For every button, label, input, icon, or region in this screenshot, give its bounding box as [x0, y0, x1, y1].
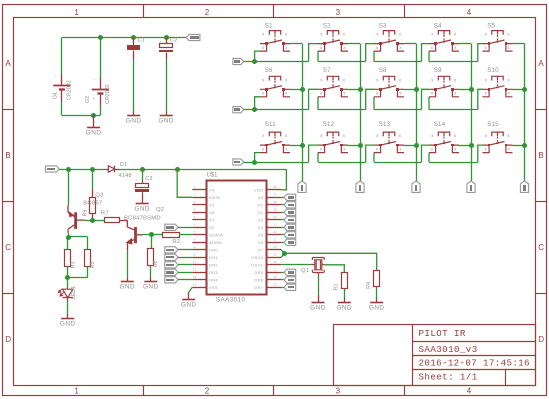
wire top supply: [62, 37, 186, 39]
ground Q2: [127, 278, 129, 282]
switch S7: [318, 76, 348, 97]
switch S8: [374, 76, 404, 97]
svg-text:R5: R5: [90, 262, 96, 269]
wire S7 to column: [348, 89, 360, 91]
wire S15 to column: [513, 145, 525, 147]
svg-text:6: 6: [194, 223, 196, 227]
ground R6: [144, 281, 157, 283]
pin 5 U1 left: [192, 219, 206, 221]
svg-text:DR0: DR0: [209, 248, 218, 253]
wire row 2 link 4: [478, 89, 483, 109]
pin 10 U1 left: [192, 257, 206, 259]
svg-text:15: 15: [273, 283, 277, 287]
pin 24 U1 right: [266, 219, 281, 221]
svg-text:U$1: U$1: [207, 173, 219, 179]
wire to IC pin1: [281, 169, 286, 190]
wire row 3 link 1: [309, 145, 318, 162]
svg-text:S14: S14: [434, 121, 446, 128]
wire supply rail 2: [120, 169, 287, 171]
svg-text:GND: GND: [310, 305, 326, 312]
wire S13 to column: [404, 145, 416, 147]
switch S13: [374, 132, 404, 153]
svg-text:23: 23: [273, 223, 277, 227]
wire crystal case to ground: [318, 272, 320, 276]
wire row 3 link 4: [478, 145, 483, 162]
tag pin6 left: [165, 224, 178, 230]
pin 13 U1 left: [192, 279, 206, 281]
svg-text:2: 2: [194, 193, 196, 197]
capacitor C2: [166, 38, 168, 44]
wire row 3 bus: [233, 159, 244, 165]
svg-text:26: 26: [273, 200, 277, 204]
wire Q3 collector node: [68, 233, 70, 237]
svg-text:A: A: [538, 59, 544, 68]
svg-text:13: 13: [193, 275, 197, 279]
svg-text:4: 4: [194, 208, 196, 212]
svg-text:5: 5: [194, 215, 196, 219]
node VCC junction dots: [98, 35, 103, 40]
svg-text:B: B: [5, 151, 10, 160]
svg-text:GND: GND: [60, 321, 76, 328]
svg-text:ADRM: ADRM: [209, 240, 222, 245]
tag column 3 net: [412, 181, 420, 192]
svg-text:18: 18: [273, 260, 277, 264]
pin 27 U1 right: [266, 197, 281, 199]
switch S1: [260, 31, 290, 51]
svg-text:X7: X7: [258, 248, 264, 253]
svg-text:24: 24: [273, 215, 277, 219]
pin 8 U1 left: [192, 242, 206, 244]
wire S9 to column: [459, 89, 471, 91]
wire S10 to column: [513, 89, 525, 91]
svg-text:CR2032: CR2032: [67, 80, 73, 100]
wire pin11 to crystal: [281, 264, 311, 266]
svg-text:27: 27: [273, 193, 277, 197]
svg-text:BC847BSMD: BC847BSMD: [124, 216, 161, 222]
wire Q2 emitter: [127, 242, 129, 251]
pin 23 U1 right: [266, 227, 281, 229]
wire OSC to R4: [285, 253, 377, 270]
wire S3 to column: [404, 43, 416, 45]
node column 1 junctions: [300, 87, 305, 92]
switch S9: [429, 76, 459, 97]
svg-text:OSC0: OSC0: [251, 255, 264, 260]
pin 3 U1 left: [192, 204, 206, 206]
pin 26 U1 right: [266, 204, 281, 206]
resistor R7: [92, 220, 105, 222]
node column 2 junctions: [358, 87, 363, 92]
svg-text:OSC1: OSC1: [251, 263, 264, 268]
svg-text:DATA: DATA: [209, 195, 220, 200]
pin 14 U1 left: [192, 287, 206, 289]
svg-text:X3: X3: [258, 218, 264, 223]
wire pin14 to ground: [189, 287, 193, 292]
tag column 2 net: [356, 181, 364, 192]
resistor R4: [374, 271, 380, 287]
wire supply to pin2: [177, 169, 192, 197]
svg-text:C1: C1: [138, 38, 146, 44]
svg-text:S8: S8: [379, 67, 387, 74]
svg-text:DR7: DR7: [254, 285, 263, 290]
resistor R5: [85, 250, 91, 267]
svg-text:4: 4: [467, 387, 472, 396]
switch S10: [483, 76, 513, 97]
wire S14 to column: [459, 145, 471, 147]
resistor R3: [65, 250, 71, 267]
wire S11 to column: [290, 145, 302, 147]
svg-text:S9: S9: [434, 67, 442, 74]
wire row 2 link 3: [422, 89, 430, 109]
wire Q2 base node: [143, 234, 163, 236]
svg-text:X4: X4: [258, 225, 264, 230]
pin 20 U1 right: [266, 249, 281, 251]
svg-text:C3: C3: [145, 176, 153, 182]
wire S2 to column: [348, 43, 360, 45]
svg-text:12: 12: [193, 268, 197, 272]
pin 19 U1 right: [266, 257, 281, 259]
wire row 1 link 4: [478, 44, 483, 62]
battery G2: [100, 38, 102, 79]
svg-text:C2: C2: [170, 38, 178, 44]
svg-text:DR3: DR3: [209, 270, 218, 275]
svg-text:3: 3: [336, 387, 341, 396]
wire S6 to column: [290, 89, 302, 91]
wire Q3 base: [85, 220, 93, 222]
svg-text:2: 2: [205, 8, 210, 17]
wire S8 to column: [404, 89, 416, 91]
svg-text:Q2: Q2: [156, 207, 164, 213]
svg-text:X6: X6: [258, 240, 264, 245]
svg-text:Q3: Q3: [95, 192, 104, 198]
tag column 1 net: [298, 181, 306, 192]
svg-text:19: 19: [273, 253, 277, 257]
resistor R6: [151, 235, 153, 249]
svg-text:GND: GND: [126, 118, 142, 125]
wire S4 to column: [459, 43, 471, 45]
wire row 1 link 2: [366, 44, 374, 62]
svg-text:LED1: LED1: [71, 286, 77, 299]
transistor Q2: [127, 220, 143, 243]
svg-text:GND: GND: [134, 206, 150, 213]
svg-text:S1: S1: [265, 22, 273, 29]
wire column 1 sense line: [302, 44, 304, 181]
wire row 2 link 1: [309, 89, 318, 109]
battery G1: [61, 38, 63, 75]
node OSC junction: [281, 250, 284, 254]
svg-text:4148: 4148: [119, 173, 132, 179]
pin 16 U1 right: [266, 279, 281, 281]
switch S12: [318, 132, 348, 153]
svg-text:GND: GND: [181, 302, 197, 309]
svg-text:X7: X7: [209, 218, 215, 223]
ground LED1: [61, 318, 74, 320]
svg-text:22: 22: [273, 230, 277, 234]
pin 28 U1 right: [266, 189, 281, 191]
svg-text:X6: X6: [209, 210, 215, 215]
svg-text:16: 16: [273, 275, 277, 279]
svg-text:DR2: DR2: [209, 263, 218, 268]
wire row 3 link 2: [366, 145, 374, 162]
svg-text:SDATA: SDATA: [209, 233, 223, 238]
svg-text:1: 1: [74, 8, 79, 17]
svg-text:DR6: DR6: [254, 278, 263, 283]
resistor R1: [342, 273, 348, 289]
tags pins 9-13 left: [165, 247, 178, 253]
svg-text:X5: X5: [209, 203, 215, 208]
tag BATT net: [186, 34, 200, 40]
ground crystal: [312, 302, 325, 304]
pin 21 U1 right: [266, 242, 281, 244]
ground C3: [136, 203, 149, 205]
wire row 3 link 3: [422, 145, 430, 162]
switch S2: [318, 31, 348, 51]
svg-text:10: 10: [193, 253, 197, 257]
svg-text:GND: GND: [336, 305, 352, 312]
wire column 4 sense line: [471, 44, 473, 181]
title block: [334, 325, 536, 386]
svg-text:R9: R9: [83, 210, 89, 217]
pin 4 U1 left: [192, 212, 206, 214]
pin 6 U1 left: [192, 227, 206, 229]
wire R3 R5 top: [68, 236, 88, 238]
pin 9 U1 left: [192, 249, 206, 251]
wire row 1 link 1: [309, 44, 318, 62]
svg-text:S2: S2: [323, 22, 331, 29]
svg-text:VSS: VSS: [209, 285, 218, 290]
svg-text:1: 1: [194, 185, 196, 189]
ground R1: [338, 302, 351, 304]
svg-text:2016-12-07 17:45:16: 2016-12-07 17:45:16: [419, 358, 530, 369]
svg-text:D: D: [538, 335, 544, 344]
pin 22 U1 right: [266, 234, 281, 236]
svg-text:3: 3: [336, 8, 341, 17]
ground battery: [93, 116, 95, 128]
svg-text:X0: X0: [209, 225, 215, 230]
switch S11: [260, 132, 290, 153]
svg-text:C: C: [538, 243, 544, 252]
svg-text:8: 8: [194, 238, 196, 242]
svg-text:S5: S5: [487, 22, 495, 29]
svg-text:4: 4: [467, 8, 472, 17]
node column 4 junctions: [469, 87, 474, 92]
svg-text:+: +: [93, 96, 96, 101]
resistor R2: [163, 233, 180, 238]
wire row 1 link 3: [422, 44, 430, 62]
svg-text:C: C: [5, 243, 11, 252]
svg-text:3: 3: [194, 200, 196, 204]
wire row 1 bus: [233, 58, 244, 64]
wire S12 to column: [348, 145, 360, 147]
ground C1: [127, 115, 140, 117]
svg-text:BC857: BC857: [83, 201, 102, 207]
wire column 3 sense line: [416, 44, 418, 181]
tags pins 2-8 right: [281, 197, 284, 199]
svg-text:7: 7: [194, 230, 196, 234]
svg-text:9: 9: [194, 245, 196, 249]
switch S14: [429, 132, 459, 153]
svg-text:G2: G2: [85, 96, 91, 103]
svg-text:GND: GND: [369, 305, 385, 312]
switch S15: [483, 132, 513, 153]
svg-text:11: 11: [193, 260, 196, 264]
pin 25 U1 right: [266, 212, 281, 214]
LED LED1: [67, 278, 69, 289]
tags pins 12-14 right: [281, 272, 284, 274]
svg-text:S7: S7: [323, 67, 331, 74]
pin 7 U1 left: [192, 234, 206, 236]
svg-text:Q1: Q1: [301, 268, 309, 274]
svg-text:GND: GND: [86, 130, 102, 137]
ground U1 VSS: [182, 299, 195, 301]
svg-text:G1: G1: [53, 92, 59, 99]
svg-text:S3: S3: [379, 22, 387, 29]
svg-text:R4: R4: [366, 282, 372, 289]
wire S1 to column: [290, 43, 302, 45]
svg-text:Sheet: 1/1: Sheet: 1/1: [419, 371, 478, 382]
resistor R9: [92, 169, 94, 189]
svg-text:21: 21: [273, 238, 277, 242]
pin 18 U1 right: [266, 264, 281, 266]
svg-text:DR5: DR5: [254, 270, 263, 275]
svg-text:R3: R3: [70, 262, 76, 269]
tag column 5 net: [520, 181, 528, 192]
svg-text:25: 25: [273, 208, 277, 212]
svg-text:D1: D1: [120, 162, 128, 168]
svg-text:X1: X1: [258, 203, 264, 208]
svg-text:CR2032: CR2032: [105, 84, 111, 104]
svg-text:S12: S12: [323, 121, 335, 128]
svg-text:VDD: VDD: [254, 188, 263, 193]
capacitor C3: [142, 169, 144, 182]
pin 1 U1 left: [192, 189, 206, 191]
ground C2: [160, 115, 173, 117]
wire row 2 bus: [233, 107, 244, 113]
pin 11 U1 left: [192, 264, 206, 266]
svg-text:GND: GND: [158, 118, 174, 125]
svg-text:14: 14: [193, 283, 197, 287]
svg-text:S10: S10: [487, 67, 499, 74]
wire supply rail: [59, 169, 106, 171]
svg-text:DR1: DR1: [209, 255, 218, 260]
svg-text:17: 17: [273, 268, 277, 272]
tag column 4 net: [467, 181, 475, 192]
pin 12 U1 left: [192, 272, 206, 274]
switch S3: [374, 31, 404, 51]
ground R4: [370, 302, 383, 304]
svg-text:S6: S6: [265, 67, 273, 74]
svg-text:20: 20: [273, 245, 277, 249]
svg-text:X0: X0: [258, 195, 264, 200]
wire crystal to R1: [324, 265, 344, 272]
switch S4: [429, 31, 459, 51]
svg-text:D: D: [5, 335, 11, 344]
wire battery bottom: [62, 115, 101, 117]
tag supply rail: [46, 166, 60, 172]
svg-text:R1: R1: [334, 284, 340, 291]
svg-text:GND: GND: [119, 283, 135, 290]
switch S5: [483, 31, 513, 51]
svg-text:X5: X5: [258, 233, 264, 238]
svg-text:B: B: [538, 151, 543, 160]
svg-text:PILOT IR: PILOT IR: [419, 328, 466, 339]
node column 3 junctions: [414, 87, 419, 92]
wire S5 to column: [513, 43, 525, 45]
svg-text:28: 28: [273, 185, 277, 189]
svg-text:R7: R7: [101, 211, 109, 217]
svg-text:SAA3010: SAA3010: [216, 297, 246, 304]
op-amp U1 SAA3010: [207, 181, 267, 295]
node column 5 junctions: [522, 87, 527, 92]
pin 2 U1 left: [192, 197, 206, 199]
svg-text:X2: X2: [258, 210, 264, 215]
svg-text:1: 1: [74, 387, 79, 396]
svg-text:R6: R6: [153, 261, 159, 268]
node battery gnd junction: [91, 113, 96, 118]
diode D1: [106, 169, 109, 171]
pin 17 U1 right: [266, 272, 281, 274]
svg-text:S4: S4: [434, 22, 442, 29]
svg-text:S13: S13: [379, 121, 391, 128]
svg-text:R2: R2: [172, 239, 180, 245]
svg-text:X4: X4: [209, 188, 215, 193]
wire column 5 sense line: [524, 44, 526, 181]
wire column 2 sense line: [360, 44, 362, 181]
svg-text:2: 2: [205, 387, 210, 396]
switch S6: [260, 76, 290, 97]
svg-text:GND: GND: [143, 283, 159, 290]
svg-text:A: A: [5, 59, 11, 68]
svg-text:S11: S11: [265, 121, 277, 128]
svg-text:SAA3010_v3: SAA3010_v3: [419, 344, 478, 355]
svg-text:DR4: DR4: [209, 278, 218, 283]
svg-text:S15: S15: [487, 121, 499, 128]
wire R3 R5 bottom: [67, 267, 69, 278]
wire row 2 link 2: [366, 89, 374, 109]
capacitor C1: [133, 38, 135, 46]
pin 15 U1 right: [266, 287, 281, 289]
